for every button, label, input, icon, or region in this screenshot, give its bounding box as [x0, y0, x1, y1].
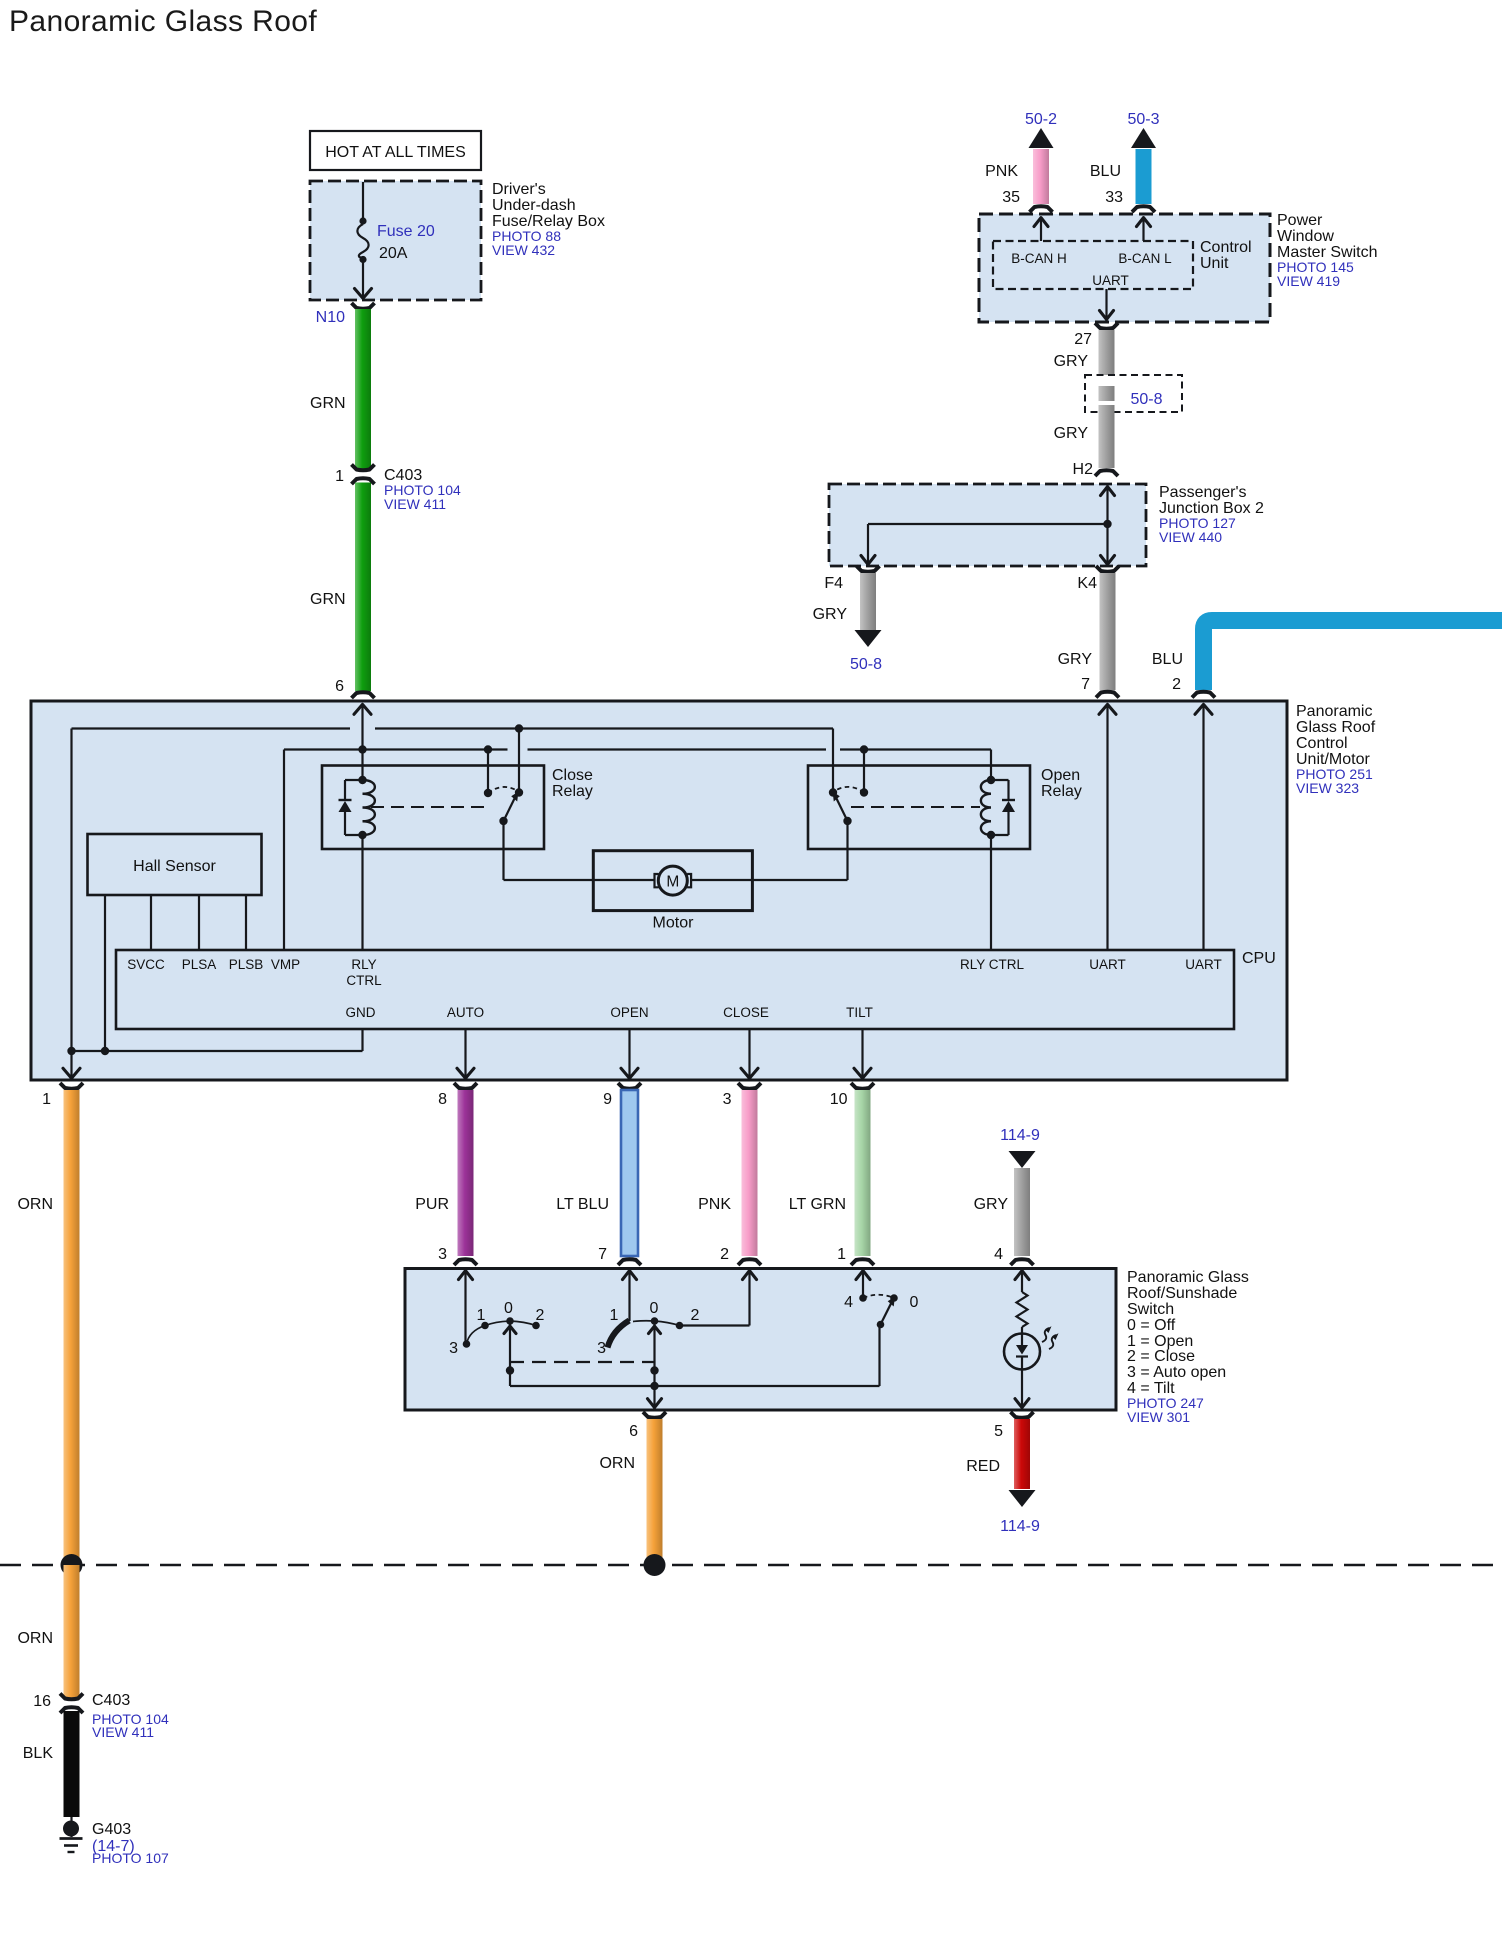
- svg-text:F4: F4: [824, 575, 843, 592]
- svg-text:K4: K4: [1077, 575, 1097, 592]
- svg-text:Switch: Switch: [1127, 1301, 1174, 1318]
- svg-text:PUR: PUR: [415, 1196, 449, 1213]
- svg-text:Close: Close: [552, 767, 593, 784]
- svg-text:50-8: 50-8: [1130, 391, 1162, 408]
- svg-text:8: 8: [438, 1091, 447, 1108]
- svg-text:Open: Open: [1041, 767, 1080, 784]
- svg-text:114-9: 114-9: [1000, 1518, 1040, 1535]
- svg-text:27: 27: [1074, 331, 1092, 348]
- svg-text:5: 5: [994, 1423, 1003, 1440]
- svg-text:GRY: GRY: [813, 606, 848, 623]
- svg-text:TILT: TILT: [846, 1005, 873, 1020]
- svg-text:BLU: BLU: [1152, 651, 1183, 668]
- svg-text:H2: H2: [1073, 461, 1094, 478]
- svg-text:20A: 20A: [379, 245, 408, 262]
- svg-text:G403: G403: [92, 1821, 131, 1838]
- svg-text:1: 1: [610, 1307, 619, 1324]
- svg-text:VIEW 411: VIEW 411: [384, 496, 446, 512]
- svg-text:UART: UART: [1089, 957, 1126, 972]
- svg-text:Panoramic Glass Roof: Panoramic Glass Roof: [9, 5, 317, 38]
- svg-text:9: 9: [603, 1091, 612, 1108]
- svg-text:4: 4: [994, 1246, 1003, 1263]
- svg-text:Panoramic Glass: Panoramic Glass: [1127, 1269, 1249, 1286]
- svg-text:6: 6: [629, 1423, 638, 1440]
- svg-text:B-CAN H: B-CAN H: [1011, 251, 1067, 266]
- svg-text:VIEW 411: VIEW 411: [92, 1724, 154, 1740]
- svg-text:7: 7: [598, 1246, 607, 1263]
- svg-text:CTRL: CTRL: [346, 973, 382, 988]
- svg-text:3: 3: [438, 1246, 447, 1263]
- svg-text:VIEW 440: VIEW 440: [1159, 529, 1222, 545]
- svg-text:CLOSE: CLOSE: [723, 1005, 769, 1020]
- svg-text:GND: GND: [346, 1005, 376, 1020]
- svg-text:PLSA: PLSA: [182, 957, 217, 972]
- svg-text:BLU: BLU: [1090, 163, 1121, 180]
- svg-text:Passenger's: Passenger's: [1159, 484, 1247, 501]
- svg-text:1: 1: [335, 468, 344, 485]
- svg-text:PHOTO 107: PHOTO 107: [92, 1850, 169, 1866]
- svg-text:Unit: Unit: [1200, 255, 1229, 272]
- svg-text:Driver's: Driver's: [492, 181, 546, 198]
- svg-text:GRN: GRN: [310, 591, 346, 608]
- svg-text:35: 35: [1002, 189, 1020, 206]
- svg-text:Hall Sensor: Hall Sensor: [133, 858, 216, 875]
- svg-text:ORN: ORN: [599, 1455, 635, 1472]
- svg-text:VIEW 301: VIEW 301: [1127, 1409, 1190, 1425]
- svg-text:ORN: ORN: [17, 1196, 53, 1213]
- svg-text:2: 2: [536, 1307, 545, 1324]
- svg-text:1: 1: [42, 1091, 51, 1108]
- svg-text:Under-dash: Under-dash: [492, 197, 576, 214]
- svg-text:GRY: GRY: [1054, 353, 1089, 370]
- svg-text:3 = Auto open: 3 = Auto open: [1127, 1364, 1226, 1381]
- svg-text:10: 10: [830, 1091, 848, 1108]
- svg-text:Motor: Motor: [653, 915, 695, 932]
- svg-text:3: 3: [449, 1340, 458, 1357]
- svg-text:Panoramic: Panoramic: [1296, 703, 1372, 720]
- svg-text:RLY CTRL: RLY CTRL: [960, 957, 1025, 972]
- svg-text:33: 33: [1105, 189, 1123, 206]
- svg-text:CPU: CPU: [1242, 950, 1276, 967]
- svg-text:SVCC: SVCC: [127, 957, 165, 972]
- svg-text:Roof/Sunshade: Roof/Sunshade: [1127, 1285, 1237, 1302]
- svg-text:0 = Off: 0 = Off: [1127, 1317, 1176, 1334]
- svg-text:0: 0: [504, 1300, 513, 1317]
- svg-text:GRY: GRY: [974, 1196, 1009, 1213]
- svg-text:Control: Control: [1200, 239, 1252, 256]
- svg-text:0: 0: [910, 1294, 919, 1311]
- svg-text:RLY: RLY: [351, 957, 376, 972]
- svg-text:B-CAN L: B-CAN L: [1118, 251, 1172, 266]
- svg-text:2 = Close: 2 = Close: [1127, 1348, 1195, 1365]
- svg-text:UART: UART: [1185, 957, 1222, 972]
- svg-text:4: 4: [844, 1294, 853, 1311]
- svg-text:1: 1: [477, 1307, 486, 1324]
- svg-text:M: M: [666, 874, 679, 891]
- svg-text:BLK: BLK: [23, 1745, 54, 1762]
- svg-text:OPEN: OPEN: [610, 1005, 648, 1020]
- svg-text:LT BLU: LT BLU: [556, 1196, 609, 1213]
- svg-text:GRY: GRY: [1054, 425, 1089, 442]
- svg-text:7: 7: [1081, 676, 1090, 693]
- svg-text:Control: Control: [1296, 735, 1348, 752]
- svg-text:Power: Power: [1277, 212, 1323, 229]
- svg-text:2: 2: [720, 1246, 729, 1263]
- svg-text:PLSB: PLSB: [229, 957, 264, 972]
- svg-text:VMP: VMP: [271, 957, 300, 972]
- svg-text:LT GRN: LT GRN: [789, 1196, 846, 1213]
- svg-text:C403: C403: [92, 1692, 130, 1709]
- svg-text:Window: Window: [1277, 228, 1334, 245]
- svg-text:AUTO: AUTO: [447, 1005, 484, 1020]
- svg-text:HOT AT ALL TIMES: HOT AT ALL TIMES: [325, 144, 466, 161]
- svg-text:Relay: Relay: [552, 783, 593, 800]
- svg-text:RED: RED: [966, 1458, 1000, 1475]
- svg-text:50-2: 50-2: [1025, 111, 1057, 128]
- svg-text:2: 2: [1172, 676, 1181, 693]
- svg-text:3: 3: [723, 1091, 732, 1108]
- svg-text:PNK: PNK: [985, 163, 1018, 180]
- svg-text:PNK: PNK: [698, 1196, 731, 1213]
- svg-text:GRN: GRN: [310, 395, 346, 412]
- svg-text:ORN: ORN: [17, 1630, 53, 1647]
- svg-text:1: 1: [837, 1246, 846, 1263]
- svg-text:6: 6: [335, 678, 344, 695]
- svg-text:N10: N10: [316, 309, 345, 326]
- svg-text:50-3: 50-3: [1127, 111, 1159, 128]
- svg-text:Glass Roof: Glass Roof: [1296, 719, 1376, 736]
- svg-text:GRY: GRY: [1058, 651, 1093, 668]
- svg-text:0: 0: [650, 1300, 659, 1317]
- svg-text:3: 3: [597, 1340, 606, 1357]
- svg-text:114-9: 114-9: [1000, 1127, 1040, 1144]
- svg-text:UART: UART: [1092, 273, 1129, 288]
- svg-text:VIEW 323: VIEW 323: [1296, 780, 1359, 796]
- svg-text:2: 2: [691, 1307, 700, 1324]
- svg-text:50-8: 50-8: [850, 656, 882, 673]
- svg-text:Fuse 20: Fuse 20: [377, 223, 435, 240]
- svg-text:Relay: Relay: [1041, 783, 1082, 800]
- svg-text:VIEW 432: VIEW 432: [492, 242, 555, 258]
- svg-text:16: 16: [33, 1693, 51, 1710]
- svg-text:VIEW 419: VIEW 419: [1277, 273, 1340, 289]
